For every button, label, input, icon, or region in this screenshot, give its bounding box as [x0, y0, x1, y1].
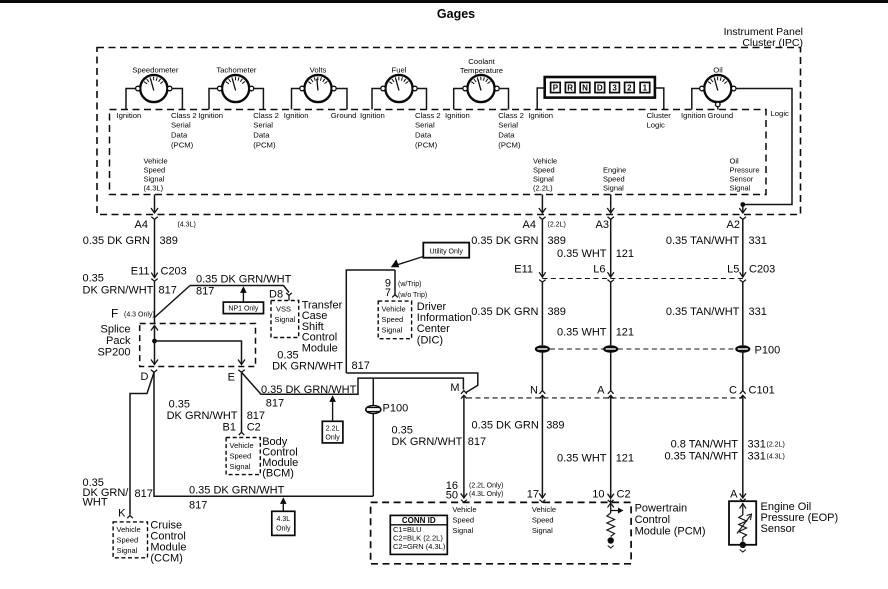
- svg-text:Ignition: Ignition: [528, 111, 553, 120]
- svg-text:Signal: Signal: [275, 315, 296, 324]
- svg-text:50: 50: [446, 490, 458, 502]
- callout 4.3L Only: [272, 511, 295, 535]
- PRNDL shift indicator: [545, 77, 655, 98]
- svg-text:Vehicle: Vehicle: [452, 505, 476, 514]
- grommet P100 row left: [535, 345, 550, 353]
- svg-text:0.35 WHT: 0.35 WHT: [557, 248, 607, 260]
- sensor Engine Oil Pressure (EOP): [729, 501, 756, 552]
- svg-text:Serial: Serial: [253, 121, 273, 130]
- wire engine speed to A3: [610, 195, 612, 214]
- svg-text:Data: Data: [415, 130, 432, 139]
- svg-text:817: 817: [247, 410, 265, 422]
- wire 817 DK GRN/WHT to splice F: [154, 281, 156, 323]
- svg-text:Utility Only: Utility Only: [429, 248, 463, 255]
- svg-text:Gages: Gages: [437, 7, 475, 21]
- callout NP1 Only: [223, 302, 263, 314]
- svg-text:P100: P100: [755, 345, 781, 357]
- wire E to BCM: [241, 372, 243, 432]
- svg-text:121: 121: [616, 453, 634, 465]
- svg-text:Signal: Signal: [730, 184, 751, 193]
- svg-text:(2.2L): (2.2L): [533, 184, 553, 193]
- svg-text:Ground: Ground: [331, 111, 357, 120]
- svg-text:2: 2: [627, 84, 632, 93]
- wire coolant class2: [499, 89, 508, 110]
- svg-text:Speed: Speed: [382, 315, 404, 324]
- wire volts ground: [336, 89, 347, 110]
- svg-text:817: 817: [266, 398, 284, 410]
- svg-text:Signal: Signal: [117, 546, 138, 555]
- svg-text:Logic: Logic: [647, 121, 666, 130]
- svg-text:121: 121: [616, 327, 634, 339]
- svg-text:0.35 TAN/WHT: 0.35 TAN/WHT: [666, 235, 740, 247]
- svg-text:N: N: [530, 385, 538, 397]
- svg-text:(4.3L): (4.3L): [767, 454, 785, 461]
- svg-text:121: 121: [616, 248, 634, 260]
- svg-text:F: F: [111, 307, 118, 321]
- gauge Oil: [700, 66, 736, 107]
- wire DIC down to M junction: [346, 373, 478, 393]
- svg-text:VSS: VSS: [276, 305, 291, 314]
- svg-text:Speed: Speed: [144, 166, 166, 175]
- wire fuel class2: [417, 89, 426, 110]
- grommet P100 (single): [366, 403, 408, 415]
- svg-text:Speed: Speed: [532, 516, 554, 525]
- svg-text:Tachometer: Tachometer: [216, 66, 257, 75]
- splice pack SP200 dashed box: [140, 324, 256, 367]
- svg-text:(4.3L): (4.3L): [178, 222, 196, 229]
- junction dot oil pressure signal: [740, 202, 745, 207]
- svg-text:(PCM): (PCM): [171, 141, 194, 150]
- wire D diagonal to K (CCM): [130, 372, 154, 514]
- svg-text:817: 817: [468, 436, 486, 448]
- svg-text:Only: Only: [325, 435, 340, 442]
- svg-text:Signal: Signal: [603, 184, 624, 193]
- connector A3: [608, 217, 614, 220]
- svg-text:E11: E11: [514, 264, 533, 276]
- gauge Fuel: [381, 66, 417, 103]
- svg-text:Sensor: Sensor: [730, 175, 754, 184]
- wire C line (A2 to EOP sensor): [742, 219, 744, 277]
- svg-text:817: 817: [189, 500, 207, 512]
- svg-text:389: 389: [548, 235, 566, 247]
- svg-text:Speed: Speed: [117, 536, 139, 545]
- svg-text:2.2L: 2.2L: [326, 426, 340, 433]
- grommet P100 row middle: [603, 345, 618, 353]
- IPC inner dashed box (cluster assembly): [110, 110, 767, 195]
- wire DIC branch: [346, 270, 395, 373]
- svg-text:(PCM): (PCM): [253, 141, 276, 150]
- page top border: [0, 0, 888, 3]
- wire E diagonal branch to M: [242, 372, 464, 394]
- wire oil logic to A2: [736, 89, 792, 205]
- svg-text:817: 817: [159, 285, 177, 297]
- svg-text:Data: Data: [498, 130, 515, 139]
- svg-text:L5: L5: [727, 264, 739, 276]
- gauge Coolant Temperature: [460, 57, 503, 102]
- svg-text:SP200: SP200: [97, 347, 130, 359]
- svg-text:Data: Data: [171, 130, 188, 139]
- svg-text:(4.3 Only): (4.3 Only): [124, 312, 155, 319]
- svg-text:E11: E11: [131, 266, 150, 278]
- svg-text:M: M: [450, 382, 459, 394]
- svg-text:Pressure: Pressure: [730, 166, 760, 175]
- connector A4 (4.3L): [151, 217, 157, 220]
- svg-text:A2: A2: [727, 219, 740, 231]
- svg-text:(4.3L): (4.3L): [144, 184, 164, 193]
- wire A line (A3 to PCM 10): [610, 219, 612, 277]
- dashed connector line C203: [542, 278, 742, 280]
- svg-text:Coolant: Coolant: [468, 57, 495, 66]
- svg-text:1: 1: [643, 84, 648, 93]
- PCM internal circuit at pin 10: [607, 500, 624, 549]
- svg-text:A4: A4: [135, 219, 148, 231]
- wire tachometer ignition: [209, 89, 217, 110]
- svg-text:C2: C2: [617, 489, 631, 501]
- svg-text:331: 331: [748, 439, 766, 451]
- wire oil ignition: [692, 89, 700, 110]
- svg-text:Speed: Speed: [230, 452, 252, 461]
- svg-text:DK GRN/WHT: DK GRN/WHT: [392, 436, 463, 448]
- svg-text:Sensor: Sensor: [761, 523, 796, 535]
- svg-text:Engine: Engine: [603, 166, 626, 175]
- svg-text:A4: A4: [523, 219, 536, 231]
- svg-text:817: 817: [352, 360, 370, 372]
- svg-text:Logic: Logic: [771, 109, 790, 118]
- svg-text:Vehicle: Vehicle: [117, 525, 141, 534]
- svg-text:C: C: [729, 385, 737, 397]
- wire oil pressure signal to A2: [742, 205, 744, 214]
- svg-text:Signal: Signal: [452, 526, 473, 535]
- svg-text:(DIC): (DIC): [417, 335, 443, 347]
- svg-text:Module: Module: [302, 342, 338, 354]
- svg-text:Ignition: Ignition: [445, 111, 470, 120]
- callout 2.2L Only: [322, 421, 343, 443]
- wire D down to bottom run: [154, 372, 373, 496]
- wire VSS 2.2L to A4: [541, 195, 543, 214]
- svg-text:817: 817: [196, 286, 214, 298]
- svg-text:Oil: Oil: [713, 66, 723, 75]
- svg-text:C203: C203: [161, 266, 187, 278]
- svg-text:Temperature: Temperature: [460, 66, 503, 75]
- svg-text:Volts: Volts: [310, 66, 327, 75]
- svg-text:Class 2: Class 2: [498, 111, 524, 120]
- svg-text:Data: Data: [253, 130, 270, 139]
- svg-text:0.35 DK GRN: 0.35 DK GRN: [83, 235, 150, 247]
- svg-text:Pack: Pack: [106, 335, 131, 347]
- gauge Tachometer: [216, 66, 257, 103]
- svg-text:Signal: Signal: [532, 526, 553, 535]
- connector A4 (2.2L): [539, 217, 545, 220]
- svg-text:L6: L6: [593, 264, 605, 276]
- arrow from Utility Only callout: [396, 257, 423, 266]
- wire speedometer class2: [172, 89, 182, 110]
- transfer case VSS Signal box: [271, 301, 299, 338]
- svg-text:CONN ID: CONN ID: [402, 516, 436, 525]
- svg-text:Ignition: Ignition: [681, 111, 706, 120]
- svg-text:389: 389: [160, 235, 178, 247]
- svg-text:A3: A3: [596, 219, 609, 231]
- connector D: [151, 370, 157, 373]
- svg-text:817: 817: [135, 488, 153, 500]
- svg-text:Class 2: Class 2: [253, 111, 279, 120]
- svg-text:R: R: [567, 84, 573, 93]
- svg-text:(2.2L): (2.2L): [767, 442, 785, 449]
- svg-text:B1: B1: [223, 422, 236, 434]
- svg-text:Ignition: Ignition: [198, 111, 223, 120]
- svg-text:(BCM): (BCM): [262, 468, 294, 480]
- svg-text:D: D: [597, 84, 603, 93]
- svg-text:(2.2L Only): (2.2L Only): [469, 483, 503, 490]
- svg-text:331: 331: [748, 451, 766, 463]
- svg-text:C2: C2: [247, 422, 261, 434]
- CCM Vehicle Speed Signal box: [113, 522, 147, 558]
- svg-text:Vehicle: Vehicle: [382, 305, 406, 314]
- gauge Speedometer: [132, 66, 179, 103]
- svg-text:Fuel: Fuel: [392, 66, 407, 75]
- connector C203 pin E11 left: [151, 273, 157, 278]
- wire VSS 4.3L to A4: [154, 195, 156, 214]
- svg-text:0.35 DK GRN: 0.35 DK GRN: [472, 420, 539, 432]
- svg-text:Ground: Ground: [708, 111, 734, 120]
- svg-text:331: 331: [749, 306, 767, 318]
- svg-text:0.35: 0.35: [392, 425, 413, 437]
- svg-text:Signal: Signal: [144, 175, 165, 184]
- svg-text:(w/o Trip): (w/o Trip): [398, 292, 427, 299]
- svg-text:NP1 Only: NP1 Only: [228, 306, 258, 313]
- svg-text:Center: Center: [417, 323, 450, 335]
- wire coolant ignition: [454, 89, 463, 110]
- svg-text:(PCM): (PCM): [498, 141, 521, 150]
- svg-text:Serial: Serial: [415, 121, 435, 130]
- IPC outer dashed box: [97, 48, 801, 215]
- gauge Volts: [300, 66, 336, 103]
- svg-text:0.35: 0.35: [83, 273, 104, 285]
- wire volts ignition: [292, 89, 300, 110]
- dashed connector line C101: [467, 397, 743, 399]
- DIC Vehicle Speed Signal box: [378, 301, 411, 339]
- wire 817 horizontal to transfer case D8: [190, 286, 289, 293]
- grommet P100 row right: [735, 345, 750, 353]
- connector E: [238, 370, 244, 373]
- svg-text:(w/Trip): (w/Trip): [398, 281, 421, 288]
- wire speedometer ignition: [126, 89, 136, 110]
- svg-text:E: E: [228, 372, 235, 384]
- svg-text:389: 389: [548, 306, 566, 318]
- svg-text:Ignition: Ignition: [360, 111, 385, 120]
- svg-text:Serial: Serial: [171, 121, 191, 130]
- svg-text:D: D: [141, 371, 149, 383]
- svg-text:(PCM): (PCM): [415, 141, 438, 150]
- svg-text:7: 7: [385, 287, 391, 299]
- svg-text:WHT: WHT: [83, 497, 108, 509]
- svg-text:Ignition: Ignition: [117, 111, 142, 120]
- module PCM dashed box: [371, 502, 631, 563]
- svg-text:Class 2: Class 2: [171, 111, 197, 120]
- wire PRNDL cluster logic: [655, 88, 664, 110]
- svg-text:N: N: [582, 84, 588, 93]
- BCM Vehicle Speed Signal box: [226, 438, 260, 475]
- svg-text:0.35 WHT: 0.35 WHT: [557, 453, 607, 465]
- svg-text:Speed: Speed: [452, 516, 474, 525]
- svg-text:Serial: Serial: [498, 121, 518, 130]
- svg-text:Only: Only: [276, 526, 291, 533]
- svg-text:(2.2L): (2.2L): [548, 222, 566, 229]
- svg-text:D8: D8: [269, 289, 283, 301]
- svg-text:A: A: [730, 489, 738, 501]
- svg-text:(CCM): (CCM): [150, 553, 182, 565]
- wire fuel ignition: [372, 89, 381, 110]
- wire oil ground: [717, 107, 719, 110]
- svg-text:DK GRN/WHT: DK GRN/WHT: [167, 410, 238, 422]
- svg-text:Speed: Speed: [603, 175, 625, 184]
- svg-text:DK GRN/WHT: DK GRN/WHT: [83, 285, 154, 297]
- svg-text:Signal: Signal: [533, 175, 554, 184]
- svg-text:Speed: Speed: [533, 166, 555, 175]
- svg-text:Control: Control: [635, 514, 670, 526]
- svg-text:0.8 TAN/WHT: 0.8 TAN/WHT: [671, 439, 739, 451]
- wire tachometer class2: [254, 89, 264, 110]
- svg-text:Powertrain: Powertrain: [635, 503, 688, 515]
- svg-text:0.35 TAN/WHT: 0.35 TAN/WHT: [664, 451, 738, 463]
- wire N line (A4 2.2L to PCM 17): [541, 219, 543, 277]
- callout Utility Only: [423, 243, 469, 258]
- svg-text:0.35 DK GRN/WHT: 0.35 DK GRN/WHT: [189, 485, 285, 497]
- svg-text:P: P: [553, 84, 559, 93]
- svg-text:Ignition: Ignition: [284, 111, 309, 120]
- svg-text:0.35 TAN/WHT: 0.35 TAN/WHT: [666, 306, 740, 318]
- svg-text:3: 3: [612, 84, 617, 93]
- PCM CONN ID table: [390, 515, 447, 554]
- svg-text:0.35 DK GRN: 0.35 DK GRN: [471, 235, 538, 247]
- svg-text:Vehicle: Vehicle: [533, 157, 557, 166]
- svg-text:Signal: Signal: [382, 326, 403, 335]
- svg-text:Splice: Splice: [101, 324, 131, 336]
- svg-text:0.35 WHT: 0.35 WHT: [557, 327, 607, 339]
- svg-text:Signal: Signal: [230, 462, 251, 471]
- svg-text:Oil: Oil: [730, 157, 740, 166]
- svg-text:(4.3L Only): (4.3L Only): [469, 491, 503, 498]
- splice SP200 internal wires: [151, 326, 158, 331]
- svg-text:4.3L: 4.3L: [276, 516, 290, 523]
- svg-text:0.35 DK GRN/WHT: 0.35 DK GRN/WHT: [261, 384, 357, 396]
- connector A2: [740, 217, 746, 220]
- svg-text:0.35: 0.35: [169, 399, 190, 411]
- svg-text:Module (PCM): Module (PCM): [635, 526, 706, 538]
- svg-text:17: 17: [527, 489, 539, 501]
- svg-text:DK GRN/WHT: DK GRN/WHT: [272, 361, 343, 373]
- svg-text:P100: P100: [383, 403, 409, 415]
- svg-text:C2=GRN (4.3L): C2=GRN (4.3L): [393, 542, 446, 551]
- svg-text:10: 10: [592, 489, 604, 501]
- svg-text:Vehicle: Vehicle: [144, 157, 168, 166]
- wire PRNDL ignition: [537, 88, 545, 110]
- svg-text:0.35 DK GRN: 0.35 DK GRN: [471, 306, 538, 318]
- wire riser through P100 to M: [372, 378, 374, 496]
- wire M to PCM 16/50: [463, 395, 465, 498]
- wire 389 DK GRN (4.3L branch): [154, 219, 156, 277]
- svg-text:389: 389: [546, 420, 564, 432]
- svg-text:331: 331: [749, 235, 767, 247]
- svg-text:Speedometer: Speedometer: [132, 66, 179, 75]
- wire diagonal from transfer-case branch into F: [155, 286, 191, 318]
- svg-text:C101: C101: [749, 385, 775, 397]
- svg-text:C203: C203: [749, 264, 775, 276]
- svg-text:Cluster: Cluster: [647, 111, 672, 120]
- svg-text:Vehicle: Vehicle: [532, 505, 556, 514]
- dashed connector line P100: [550, 348, 735, 350]
- svg-text:Vehicle: Vehicle: [230, 441, 254, 450]
- svg-text:Class 2: Class 2: [415, 111, 441, 120]
- svg-text:K: K: [118, 508, 126, 520]
- svg-text:A: A: [597, 385, 605, 397]
- svg-text:0.35 DK GRN/WHT: 0.35 DK GRN/WHT: [196, 274, 292, 286]
